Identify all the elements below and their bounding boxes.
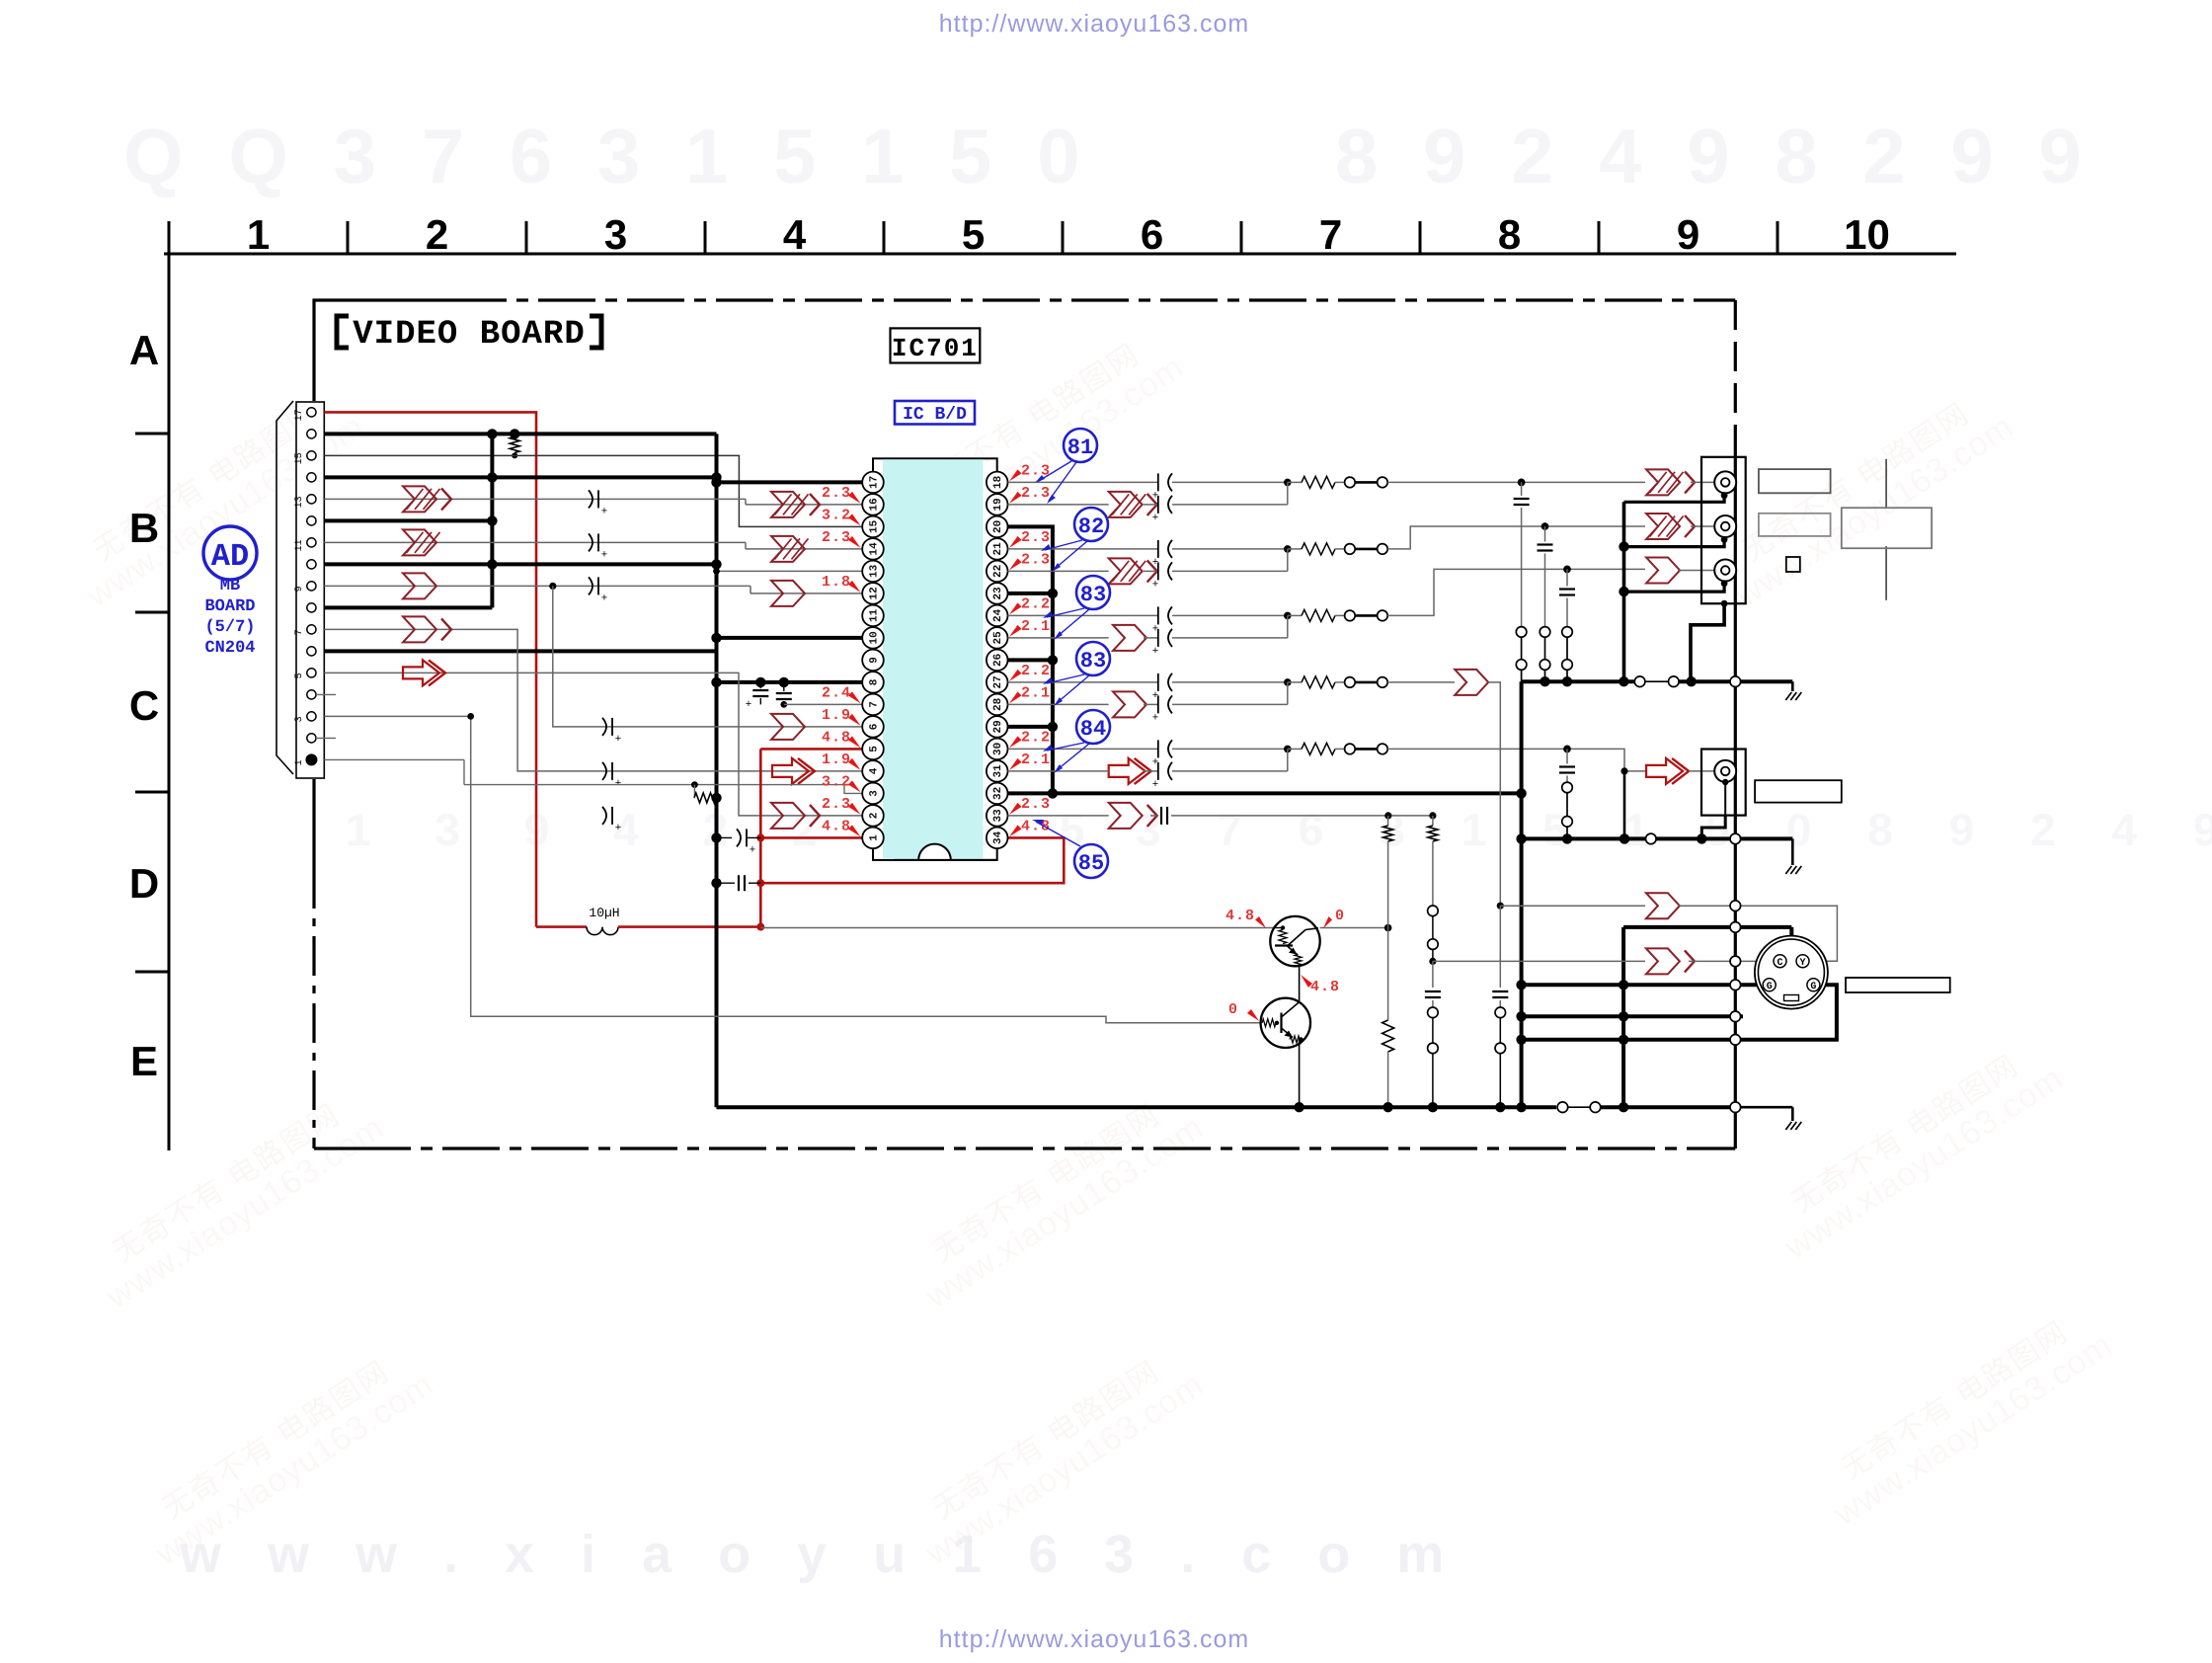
svg-text:4.8: 4.8 — [822, 818, 851, 834]
svg-text:20: 20 — [992, 520, 1004, 533]
capacitor ceramic on pin33 line — [1150, 815, 1157, 817]
svg-text:+: + — [615, 733, 621, 745]
svg-text:G: G — [1767, 982, 1773, 992]
video board boundary bottom edge — [314, 1147, 354, 1149]
label box svideo — [1846, 978, 1950, 992]
signal arrow before jack3 — [1646, 558, 1680, 584]
board edge feedthrough connectors — [1730, 676, 1741, 687]
svg-text:6: 6 — [1141, 211, 1163, 258]
label small square — [1786, 557, 1800, 572]
wire pin31 merge to pin30 — [1287, 749, 1289, 771]
wire CN204 pin7 to IC pin4 — [324, 629, 862, 771]
label box jack4 — [1755, 780, 1842, 802]
ground bus vertical 1 — [490, 434, 494, 607]
svg-text:http://www.xiaoyu163.com: http://www.xiaoyu163.com — [939, 1625, 1249, 1653]
ground bus vertical 2 — [715, 434, 719, 1107]
wire net83b east to Y column — [1387, 681, 1455, 683]
svg-text:G: G — [1810, 982, 1816, 992]
signal arrow on pin19 line — [1109, 492, 1143, 517]
svideo key notch — [1784, 995, 1799, 1001]
svg-text:1.8: 1.8 — [822, 574, 851, 591]
svg-text:3: 3 — [604, 211, 627, 258]
svg-text:83: 83 — [1080, 583, 1106, 607]
svg-text:1.9: 1.9 — [822, 752, 851, 768]
capacitor on pin30 line — [1157, 740, 1159, 757]
capacitor on pin11 line — [589, 533, 592, 551]
svg-text:34: 34 — [992, 831, 1004, 844]
wire pin33 east to resistor columns — [1171, 815, 1433, 817]
IC701 body cyan fill — [883, 459, 984, 859]
capacitor bus2 to red net ceramic — [711, 878, 721, 888]
jack middle box — [1701, 750, 1746, 816]
svg-text:0: 0 — [1335, 908, 1344, 924]
svg-text:E: E — [130, 1038, 158, 1084]
svg-text:2.1: 2.1 — [1021, 752, 1051, 768]
signal arrow before IC pin14 — [771, 536, 805, 562]
wire bus2 to IC pin10 thick — [717, 636, 863, 640]
svg-text:2.4: 2.4 — [822, 684, 851, 701]
capacitor on pin19 line — [1157, 496, 1159, 514]
svg-text:+: + — [601, 505, 607, 516]
red wire IC pin34 loop — [760, 837, 1064, 883]
svg-text:19: 19 — [992, 498, 1004, 511]
blue callout 81 — [1064, 429, 1097, 462]
grid ruler top line — [164, 253, 1956, 256]
wire Q2 emitter to bus3 — [1299, 1040, 1301, 1108]
capacitor on pin28 line — [1157, 695, 1159, 713]
svg-text:10: 10 — [1844, 211, 1890, 258]
svg-text:C: C — [1777, 958, 1782, 969]
watermark diagonal stamps — [62, 381, 371, 615]
svg-text:17: 17 — [869, 476, 881, 489]
column net83b ceramic cap and connector to bus3 — [1499, 906, 1501, 988]
signal arrow on pin5 line — [403, 660, 439, 685]
wire IC pin24 line — [1008, 614, 1158, 616]
wire G row thick — [1522, 983, 1764, 987]
svg-text:(5/7): (5/7) — [204, 618, 255, 637]
resistor column B — [1432, 816, 1434, 826]
transistor Q1 — [1270, 916, 1319, 966]
wire pin25 merge to pin24 — [1287, 615, 1289, 638]
wire CN204 pin14 thick — [324, 475, 716, 479]
svg-text:4.8: 4.8 — [1310, 979, 1340, 995]
signal arrow before jack1 — [1646, 469, 1680, 495]
jack VIDEO 2 — [1714, 515, 1736, 537]
signal arrow on pin33 line — [1109, 803, 1143, 829]
svg-text:2.1: 2.1 — [1021, 618, 1051, 635]
svg-text:16: 16 — [869, 498, 881, 511]
svg-text:2.3: 2.3 — [822, 796, 851, 813]
svg-text:25: 25 — [992, 631, 1004, 645]
capacitor on pin21 line — [1157, 540, 1159, 558]
IC701 pin circles right — [987, 472, 1008, 494]
transistor Q2 — [1261, 998, 1310, 1048]
signal arrow on pin25 line — [1113, 625, 1146, 651]
video board boundary right edge — [1734, 300, 1737, 449]
wire net84 east — [1387, 748, 1567, 750]
svg-text:2.2: 2.2 — [1021, 729, 1051, 746]
svg-text:2: 2 — [426, 211, 448, 258]
ground symbol bus2 — [1791, 838, 1794, 865]
connector CN204 pins — [305, 753, 317, 765]
wire CN204 pin11 to IC pin14 — [324, 541, 746, 543]
label box jack2 — [1759, 514, 1831, 536]
svg-text:5: 5 — [962, 211, 985, 258]
wire CN204 pin15 to IC pin15 — [324, 455, 862, 526]
svg-text:2.3: 2.3 — [1021, 529, 1051, 546]
wire CN204 pin16 thick — [324, 432, 716, 436]
svg-text:7: 7 — [1319, 211, 1342, 258]
signal arrow on pin11 line — [403, 529, 436, 555]
svg-text:24: 24 — [992, 608, 1004, 622]
wire CN204 pin1 stub — [324, 758, 464, 760]
signal arrow on pin31 line — [1109, 758, 1145, 784]
svg-text:2.2: 2.2 — [1021, 595, 1051, 612]
wire C signal row — [1433, 960, 1645, 962]
grid left axis line — [168, 254, 171, 1150]
svideo pin Y — [1796, 955, 1809, 968]
blue callout 83 second — [1076, 642, 1110, 675]
wire svideo top thick row — [1623, 925, 1791, 929]
jack2 ground to chain — [1624, 539, 1725, 546]
svg-text:9: 9 — [1677, 211, 1699, 258]
svg-text:+: + — [601, 548, 607, 560]
connector CN204 body — [296, 402, 324, 778]
ground bus2 horizontal — [1522, 836, 1646, 840]
svg-text:B: B — [129, 505, 159, 551]
svg-text:29: 29 — [992, 720, 1004, 733]
jack VIDEO 3 — [1714, 560, 1736, 582]
wire IC pin7 — [784, 703, 862, 705]
capacitor on IC pin4 line — [602, 762, 606, 780]
svg-text:2.3: 2.3 — [1021, 796, 1051, 813]
signal arrow before IC pin2 — [771, 803, 805, 829]
red supply net IC pins 5 1 34 — [760, 748, 862, 751]
capacitor bus2 to red net electrolytic — [711, 832, 721, 842]
svg-text:9: 9 — [294, 586, 305, 592]
capacitor on pin13 line — [589, 490, 592, 508]
svg-text:10: 10 — [869, 631, 881, 644]
signal arrow before IC pin4 — [772, 758, 809, 784]
svg-text:+: + — [1152, 512, 1158, 523]
svg-text:Q Q 3 7 6 3 1 5 1 5 0: Q Q 3 7 6 3 1 5 1 5 0 — [123, 113, 1091, 199]
svg-text:Y: Y — [1799, 958, 1805, 969]
signal arrow before IC pin12 — [771, 581, 805, 606]
wire pin22 merge to pin21 — [1287, 549, 1289, 572]
connector pins on net 21 — [1345, 544, 1356, 555]
svg-text:82: 82 — [1078, 515, 1104, 539]
connector pins on net 30 — [1345, 744, 1356, 754]
wire CN204 pin5 to IC pin2 — [324, 673, 862, 816]
wire CN204 pin13 to IC pin16 — [324, 498, 746, 500]
capacitor on pin24 line — [1157, 606, 1159, 624]
svg-text:A: A — [129, 327, 159, 373]
grid ruler ticks — [168, 221, 171, 254]
jack VIDEO 4 — [1714, 760, 1736, 782]
svg-text:4.8: 4.8 — [1225, 908, 1255, 924]
blue callout 83 — [1076, 576, 1110, 609]
jack box bottom ground path to bus1 — [1691, 603, 1724, 681]
svg-text:33: 33 — [992, 809, 1004, 823]
svg-text:AD: AD — [211, 538, 249, 575]
svg-text:11: 11 — [869, 608, 881, 622]
wire pin19 merge to pin18 — [1287, 482, 1289, 505]
svg-text:12: 12 — [869, 587, 881, 599]
svg-text:+: + — [1152, 778, 1158, 790]
svg-text:11: 11 — [294, 539, 305, 551]
resistor on net 27 — [1288, 681, 1302, 683]
connector CN204 cable bracket — [276, 401, 293, 774]
wire CN204 pin8 thick — [324, 605, 492, 609]
wire Y signal row — [1500, 905, 1645, 907]
wire pin9 branch to IC pin6 — [553, 586, 862, 727]
video board title brackets — [337, 316, 349, 348]
svg-text:22: 22 — [992, 565, 1004, 578]
capacitor on IC pin6 line — [602, 718, 606, 736]
wire net83a jog up and east — [1387, 569, 1645, 615]
grid left axis ticks — [135, 433, 169, 436]
wire CN204 pin9 to IC pin12 — [324, 585, 750, 587]
wire net83b down to Y row — [1488, 682, 1500, 906]
signal arrow before jack2 — [1646, 514, 1680, 539]
wire CN204 pin6 thick — [324, 649, 716, 653]
ground symbol bus1 — [1791, 681, 1794, 691]
jack VIDEO 1 — [1714, 471, 1736, 493]
svg-text:30: 30 — [992, 743, 1004, 755]
resistor on net 30 — [1288, 748, 1302, 750]
jack ground vertical to bus1 — [1622, 502, 1626, 681]
blue callout 84 — [1076, 710, 1110, 744]
column B ceramic cap and connector to bus3 — [1432, 961, 1434, 988]
blue callout 82 — [1074, 508, 1108, 541]
connector CN204 pin stubs — [316, 693, 336, 695]
capacitor on pin18 line — [1157, 473, 1159, 491]
svg-text:CN204: CN204 — [204, 639, 255, 658]
svg-text:8 9 2 4 9 8 2 9 9: 8 9 2 4 9 8 2 9 9 — [1335, 113, 2093, 199]
svg-text:15: 15 — [869, 519, 881, 533]
wire bus2 to IC pin8 thick — [717, 680, 863, 684]
IC701 reference label box — [891, 328, 981, 362]
svg-text:1.9: 1.9 — [822, 707, 851, 724]
svg-text:http://www.xiaoyu163.com: http://www.xiaoyu163.com — [939, 10, 1249, 38]
svideo pin C — [1774, 955, 1786, 968]
svg-text:3: 3 — [294, 716, 305, 722]
capacitor on pin31 line — [1157, 762, 1159, 780]
ground bus1 horizontal — [1522, 679, 1639, 683]
svg-text:2.1: 2.1 — [1021, 684, 1051, 701]
svg-text:5: 5 — [869, 746, 881, 752]
wire pin28 merge to pin27 — [1287, 682, 1289, 705]
svg-text:18: 18 — [992, 475, 1004, 489]
signal arrow C — [1646, 948, 1680, 974]
signal arrow before IC pin16 — [771, 492, 805, 517]
jack group box — [1701, 457, 1746, 603]
svg-text:4: 4 — [783, 211, 807, 258]
wire net82 jog up and east — [1387, 526, 1645, 549]
signal arrow on pin13 line — [403, 486, 436, 512]
capacitor on IC pin2 line — [602, 807, 606, 825]
signal arrow on pin9 line — [403, 573, 436, 598]
svg-text:+: + — [746, 698, 751, 710]
svg-text:2.3: 2.3 — [1021, 551, 1051, 568]
svg-text:15: 15 — [294, 452, 305, 464]
wire G2 loop — [1522, 985, 1837, 1040]
wire CN204 pin17 red to inductor node — [324, 412, 536, 926]
wire bus2 to IC pin13 — [717, 570, 863, 572]
IC701 body outline — [873, 458, 997, 860]
svg-text:17: 17 — [294, 409, 305, 421]
capacitor on pin27 line — [1157, 673, 1159, 691]
jack1 ground to chain — [1624, 496, 1725, 503]
signal arrow Y — [1646, 893, 1680, 918]
wire IC pin19 line — [1008, 504, 1109, 506]
svg-text:31: 31 — [992, 764, 1004, 778]
svg-text:BOARD: BOARD — [204, 597, 255, 616]
svg-text:1: 1 — [294, 759, 305, 765]
svg-text:10µH: 10µH — [589, 906, 619, 920]
svg-text:w w w . x i a o y u 1 6 3 . c: w w w . x i a o y u 1 6 3 . c o m — [179, 1525, 1460, 1584]
IC701 pin circles left — [862, 828, 884, 849]
svg-text:21: 21 — [992, 542, 1004, 556]
label box large with line — [1885, 459, 1887, 509]
wire red node to transistor Q1 base line — [760, 927, 1273, 929]
label box jack1 — [1759, 469, 1831, 493]
svg-text:2.2: 2.2 — [1021, 663, 1051, 679]
wire jack4 ground drop to bus2 — [1623, 771, 1626, 839]
IC701 bottom notch — [918, 844, 951, 860]
svg-text:VIDEO BOARD: VIDEO BOARD — [353, 316, 585, 354]
svg-text:3 7 6 3 1 5 1 5 0 8 9 2 4 9: 3 7 6 3 1 5 1 5 0 8 9 2 4 9 — [1136, 804, 2212, 855]
svg-text:3.2: 3.2 — [822, 773, 851, 790]
resistor on net 18 — [1288, 481, 1302, 483]
node AD board reference — [203, 526, 257, 580]
signal arrow on pin7 line — [403, 616, 436, 642]
wire bus1 vertical main — [1520, 681, 1524, 1107]
wire bus2 to IC pin17 thick — [717, 480, 863, 484]
svg-text:4: 4 — [869, 767, 881, 774]
capacitor IC pin8 ceramic to pin7 — [783, 682, 785, 691]
capacitor column net83a to ground bus — [1563, 566, 1571, 574]
wire IC pin21 line — [1008, 548, 1158, 550]
svg-text:27: 27 — [992, 675, 1004, 688]
capacitor on pin22 line — [1157, 562, 1159, 580]
ground bus3 horizontal — [717, 1105, 1557, 1109]
capacitor column net82 to ground bus — [1541, 522, 1549, 530]
svg-text:2.3: 2.3 — [822, 485, 851, 502]
svg-text:+: + — [1152, 645, 1158, 657]
svg-text:85: 85 — [1078, 851, 1104, 876]
connector pins on net 24 — [1345, 610, 1356, 621]
capacitor on pin9 line — [589, 577, 592, 594]
svg-text:5: 5 — [294, 673, 305, 678]
svg-text:4.8: 4.8 — [822, 729, 851, 746]
resistor between pin16 and pin15 nets — [487, 429, 497, 438]
svg-text:13: 13 — [294, 496, 305, 508]
blue callout 85 — [1074, 844, 1108, 878]
connector pins on net 18 — [1345, 477, 1356, 488]
resistor column A — [1387, 816, 1389, 826]
capacitor on pin25 line — [1157, 629, 1159, 647]
svg-text:2: 2 — [869, 813, 881, 820]
wire IC pin22 line — [1008, 570, 1109, 572]
wire svideo mid thick row — [1522, 1014, 1743, 1018]
svg-text:0: 0 — [1228, 1001, 1237, 1018]
svg-text:3: 3 — [869, 790, 881, 797]
wire IC pin30 line — [1008, 748, 1158, 750]
wire IC pin28 line — [1008, 703, 1109, 705]
jack4 ground to bus2 — [1724, 782, 1726, 816]
wire IC pin25 line — [1008, 637, 1109, 639]
svg-text:C: C — [129, 682, 159, 729]
wire stub to IC pin3 — [464, 784, 731, 786]
svg-text:14: 14 — [869, 542, 881, 556]
jack ground chain — [1721, 492, 1728, 499]
wire CN204 pin3 east and down to Q2 base — [324, 716, 1260, 1022]
signal arrow net83b — [1455, 670, 1488, 695]
jack3 ground to chain — [1624, 584, 1725, 592]
svg-text:+: + — [615, 822, 621, 833]
wire Q1 emitter to Q2 collector — [1299, 966, 1301, 1002]
signal arrow before jack4 — [1646, 758, 1683, 784]
svg-text:8: 8 — [869, 678, 881, 685]
svg-text:3.2: 3.2 — [822, 507, 851, 523]
svg-text:MB: MB — [220, 577, 240, 595]
svg-text:1: 1 — [869, 834, 881, 841]
video board boundary top edge — [314, 300, 449, 401]
signal arrow on pin22 line — [1109, 558, 1143, 584]
svg-text:83: 83 — [1080, 649, 1106, 673]
connector pins on net 27 — [1345, 677, 1356, 688]
svideo pin G left — [1763, 979, 1776, 991]
capacitor IC pin8 electrolytic to pin7 — [755, 677, 765, 687]
wire Q1 collector to resistor column — [1320, 927, 1388, 929]
svg-text:81: 81 — [1067, 436, 1093, 460]
svg-text:32: 32 — [992, 787, 1004, 800]
svg-text:IC701: IC701 — [892, 334, 979, 363]
svg-text:IC B/D: IC B/D — [903, 405, 967, 425]
svg-text:7: 7 — [294, 629, 305, 635]
svg-text:7: 7 — [869, 701, 881, 708]
svg-text:8: 8 — [1498, 211, 1521, 258]
svg-text:23: 23 — [992, 587, 1004, 600]
wire CN204 pin10 thick — [324, 562, 716, 566]
ground bus vertical 2 overpass — [715, 916, 719, 938]
label IC B/D — [895, 401, 975, 425]
svg-text:+: + — [615, 777, 621, 789]
wire IC pin18 line — [1008, 481, 1158, 483]
wire CN204 pin12 thick — [324, 518, 492, 522]
svg-text:84: 84 — [1080, 717, 1106, 742]
capacitor column net81 to ground bus — [1518, 479, 1526, 487]
svg-text:13: 13 — [869, 564, 881, 578]
signal arrow before IC pin6 — [771, 714, 805, 740]
svg-text:6: 6 — [869, 724, 881, 731]
wire IC pin32 thick east — [1053, 791, 1522, 795]
svg-text:+: + — [1152, 578, 1158, 590]
wire IC pin31 line — [1008, 770, 1109, 772]
wire IC pin27 line — [1008, 681, 1158, 683]
svg-text:+: + — [1152, 711, 1158, 723]
resistor below Q1 junction — [1387, 928, 1389, 1021]
resistor pin3 line to bus2 — [693, 785, 695, 798]
video board boundary left edge lower — [312, 779, 315, 869]
capacitor column net84 to bus2 — [1563, 746, 1571, 753]
signal arrow on pin28 line — [1113, 691, 1146, 717]
resistor on net 21 — [1288, 548, 1302, 550]
svg-text:28: 28 — [992, 697, 1004, 711]
svideo pin G right — [1807, 979, 1820, 991]
svg-text:1: 1 — [247, 211, 270, 258]
